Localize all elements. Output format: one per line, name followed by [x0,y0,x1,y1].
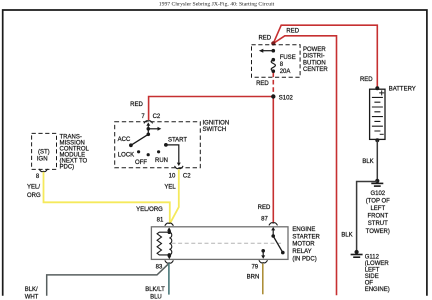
svg-text:IGNITION: IGNITION [203,120,230,126]
svg-text:FRONT: FRONT [367,214,388,220]
svg-text:(LOWER: (LOWER [365,261,390,267]
label IGNITION SWITCH [203,120,230,133]
ignition switch box dashed [115,122,201,168]
ground G102 [371,179,383,186]
svg-text:10: 10 [169,174,176,180]
wire BLK/WHT branch from pin 83 [47,264,168,295]
svg-text:87: 87 [261,217,268,223]
fuse F8 20A element [272,58,276,62]
svg-text:BLK: BLK [362,159,373,165]
fuse box (Power Distribution Center) dashed outline [252,45,301,78]
label BLK/LT BLU [145,287,165,300]
svg-text:C2: C2 [153,114,161,120]
contact ACC [129,143,133,147]
node coil top [168,230,172,234]
label G102 (TOP OF LEFT FRONT STRUT TOWER) [366,191,391,235]
svg-text:LEFT: LEFT [365,267,380,273]
label (ST) IGN [37,150,50,163]
svg-text:BLK/LT: BLK/LT [145,287,165,293]
svg-text:RED: RED [258,35,271,41]
svg-text:BLK: BLK [341,232,352,238]
svg-text:IGN: IGN [37,157,48,163]
wire RED S102 down to relay pin 87 [272,97,274,223]
svg-text:S102: S102 [279,95,294,101]
svg-text:RELAY: RELAY [292,249,311,255]
svg-text:POWER: POWER [303,47,326,53]
node J1 junction at fuse box top [271,41,275,45]
label G112 (LOWER LEFT SIDE OF ENGINE) [365,254,390,293]
label ENGINE STARTER MOTOR RELAY (IN PDC) [292,227,320,262]
svg-text:(ST): (ST) [38,150,50,156]
svg-text:ORG: ORG [27,193,41,199]
node feed dot inside PDC [272,49,276,53]
relay internal dashed divider [172,242,284,244]
battery B1 [370,86,385,142]
svg-text:BUTION: BUTION [303,60,326,66]
svg-text:ACC: ACC [118,137,131,143]
label TRANSMISSION CONTROL MODULE (NEXT TO PDC) [60,135,90,171]
svg-text:SWITCH: SWITCH [203,127,227,133]
node coil bottom [168,253,172,257]
svg-text:OF: OF [365,280,374,286]
wire BLK/LT BLU from pin 83 [168,263,170,294]
svg-text:ENGINE): ENGINE) [365,287,390,293]
svg-text:BATTERY: BATTERY [389,87,416,93]
label BLK/ WHT [25,287,39,300]
svg-text:STRUT: STRUT [368,221,388,227]
wire feed arrow to other circuits [263,50,274,52]
svg-text:20A: 20A [280,69,291,75]
connector TCM pin 8 [39,169,48,172]
svg-text:79: 79 [251,264,258,270]
contact START [164,143,168,147]
svg-text:RED: RED [360,77,373,83]
svg-text:START: START [168,137,187,143]
svg-text:BLU: BLU [150,295,162,300]
relay coil input arrow up [167,227,171,230]
svg-text:SIDE: SIDE [365,274,379,280]
svg-text:DISTRI-: DISTRI- [303,54,325,60]
wire BLK battery negative [376,140,378,179]
transmission control module box dashed [32,133,57,169]
connector C2 pin 7 [144,121,153,124]
contact OFF [147,153,150,156]
relay coil winding [169,232,172,255]
ground G112 [351,250,363,257]
svg-text:RED: RED [258,205,271,211]
svg-text:MOTOR: MOTOR [292,242,315,248]
wire RED dashed fuse output to S102 [272,73,274,95]
resistor (parallel) in relay [157,232,169,255]
svg-text:FUSE: FUSE [280,55,296,61]
svg-text:PDC): PDC) [60,165,75,171]
connector C2 pin 10 [175,166,184,169]
wire right arrow feed [148,128,158,130]
node ignition feed dot [147,127,151,131]
svg-text:CENTER: CENTER [303,67,328,73]
label FUSE 8 20A [280,55,296,75]
svg-text:TOWER): TOWER) [366,229,390,235]
svg-text:OFF: OFF [135,160,147,166]
wire RED right-side long run [273,36,336,295]
svg-text:WHT: WHT [25,295,39,300]
coil output arrow down [168,255,170,256]
svg-text:C2: C2 [183,174,191,180]
svg-text:RED: RED [256,81,269,87]
svg-text:RED: RED [130,102,143,108]
switch arm to ACC [131,134,148,145]
contact RUN [157,150,160,153]
wire RED S102 to ignition switch C2-7 [149,97,274,121]
connector relay pin 81 [165,223,174,226]
svg-text:G102: G102 [370,191,385,197]
wire BRN from pin 79 [262,264,264,295]
connector relay pin 83 [165,260,174,263]
svg-text:RUN: RUN [155,158,168,164]
label YEL/ ORG [27,184,41,199]
svg-text:(TOP OF: (TOP OF [366,198,390,204]
ignition internal wire with up arrow [146,122,150,125]
wire YEL/ORG from TCM to relay 81 [44,172,170,224]
label POWER DISTRIBUTION CENTER [303,47,328,73]
svg-text:BLK/: BLK/ [25,287,38,293]
svg-text:81: 81 [157,217,164,223]
svg-text:LOCK: LOCK [118,152,134,158]
connector relay pin 87 [269,223,278,226]
svg-text:G112: G112 [365,254,380,260]
svg-text:YEL/ORG: YEL/ORG [136,207,163,213]
svg-text:YEL/: YEL/ [27,184,40,190]
contact LOCK [137,150,140,153]
switch arm pivot [147,133,151,137]
svg-text:RED: RED [286,29,299,35]
svg-text:ENGINE: ENGINE [292,227,315,233]
relay fixed contact to pin 79 [261,249,265,253]
node S102 [271,94,275,98]
svg-text:STARTER: STARTER [292,234,320,240]
relay pin 87 arrow up and contact arm [271,227,275,230]
engine starter motor relay box [151,227,288,260]
wire YEL from C2-10 to relay 81 [170,169,179,222]
wire START to C2 pin 10 with down arrow [166,145,179,163]
connector relay pin 79 [259,260,268,263]
svg-text:BRN: BRN [247,275,260,281]
svg-text:(IN PDC): (IN PDC) [292,256,316,262]
wire BLK branch to G112 [357,182,378,251]
svg-text:YEL: YEL [164,185,176,191]
wire RED from junction to battery (top run) [273,25,377,87]
svg-text:1997 Chrysler Sebring JX-Fig.: 1997 Chrysler Sebring JX-Fig. 40: Starti… [159,1,275,7]
svg-text:LEFT: LEFT [370,206,385,212]
